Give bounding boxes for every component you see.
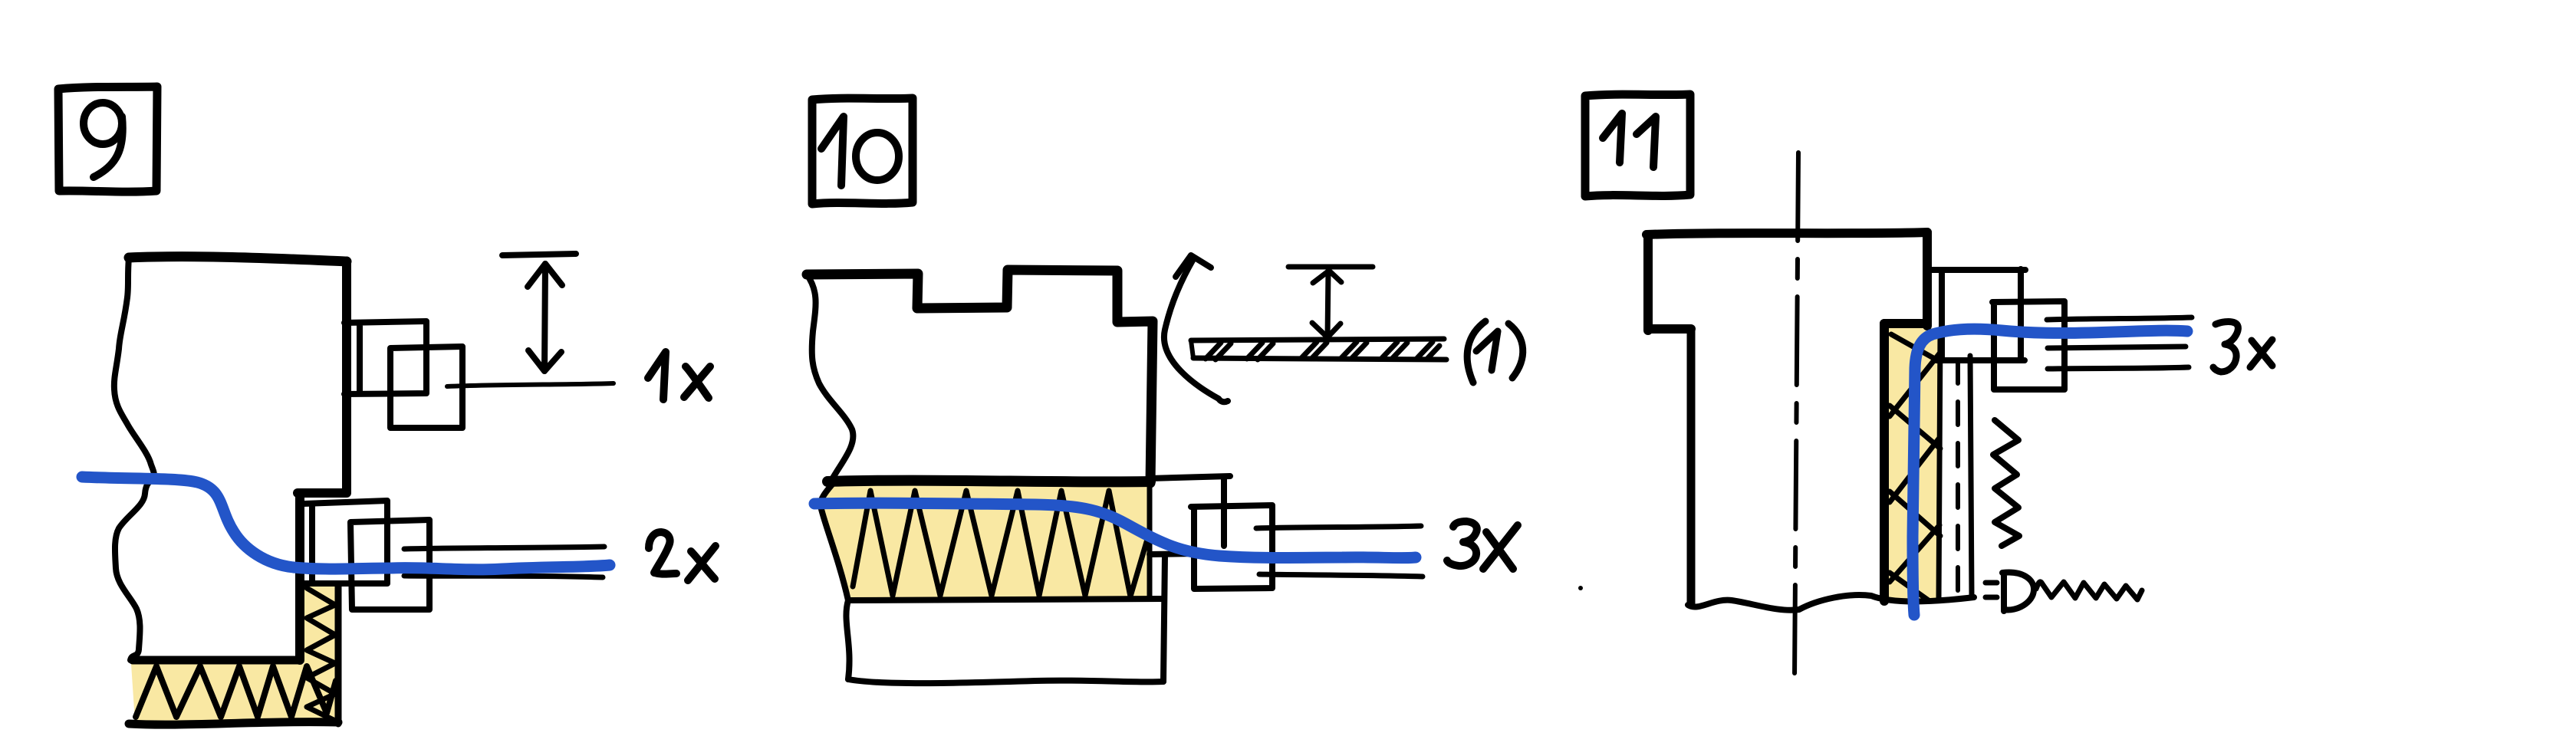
screw shank lines (panel 9) <box>404 547 604 577</box>
insulation hatch vertical strip (panel 9) <box>307 588 335 721</box>
fastener square (panel 10) <box>1191 505 1272 589</box>
label 1x (panel 9) <box>648 352 710 399</box>
plug shell (panel 11) <box>2002 573 2034 611</box>
lower block right edge (panel 10) <box>1163 555 1165 682</box>
dashed membrane line (panel 11) <box>1956 360 1960 596</box>
curved arrowhead (panel 10) <box>1176 255 1211 277</box>
digit 9 <box>84 103 123 177</box>
hatched sealing bar left cap (panel 10) <box>1191 340 1193 358</box>
label box 9 <box>58 87 157 192</box>
plug prongs (panel 11) <box>1985 583 1997 597</box>
wall left wavy break edge (panel 9) <box>114 258 154 660</box>
stray dot (panel 11) <box>1578 586 1583 590</box>
dimension arrowheads (panel 10) <box>1312 271 1341 337</box>
label 2x (panel 9) <box>649 532 716 580</box>
cladding line (panel 11) <box>1970 356 1972 596</box>
insulation bottom thick line (panel 9) <box>129 722 338 725</box>
upper fastener square (panel 9) <box>390 347 462 428</box>
yellow band right border (panel 10) <box>1147 486 1153 596</box>
insulation band bottom line (panel 10) <box>850 599 1163 600</box>
dimension arrowheads (panel 9) <box>528 264 562 371</box>
lower fastener outer box (panel 9) <box>304 501 387 583</box>
insulation right border (panel 11) <box>1939 333 1940 600</box>
spring symbol (panel 11) <box>1993 420 2019 546</box>
blue sealing tape (panel 9) <box>82 477 610 570</box>
label box 10 <box>812 98 913 204</box>
insulation strip fill (panel 11) <box>1888 328 1939 600</box>
dimension top bar (panel 10) <box>1288 265 1373 270</box>
T-profile top edge (panel 11) <box>1647 232 1927 235</box>
label 3x (panel 11) <box>2213 322 2272 372</box>
screw shank lines (panel 10) <box>1256 526 1423 577</box>
insulation right border line (panel 9) <box>335 585 342 724</box>
wall step ledge (panel 9) <box>298 488 347 498</box>
screw shank lines (panel 11) <box>2047 317 2192 369</box>
hatched sealing bar bottom line (panel 10) <box>1193 358 1446 360</box>
digits 10 <box>821 117 899 186</box>
dimension arrow shaft (panel 9) <box>544 264 545 371</box>
wall bottom edge (panel 9) <box>133 656 300 665</box>
fastener outer box (panel 11) <box>1932 269 2025 360</box>
insulation band fill (panel 10) <box>821 483 1150 600</box>
insulation band left wavy edge (panel 10) <box>821 485 848 600</box>
hatched sealing bar hatch marks (panel 10) <box>1206 342 1439 360</box>
plug coil squiggle (panel 11) <box>2036 582 2142 600</box>
label box 11 <box>1585 94 1690 196</box>
T-profile right edge (panel 11) <box>1923 232 1932 326</box>
lower fastener square (panel 9) <box>350 520 429 610</box>
curved arrow (panel 10) <box>1164 259 1228 402</box>
dimension top bar (panel 9) <box>502 254 576 255</box>
blue sealing tape (panel 11) <box>1913 329 2187 615</box>
wall left wavy edge (panel 10) <box>807 274 853 479</box>
bottom wavy break line (panel 11) <box>1688 595 1974 610</box>
fastener square (panel 11) <box>1992 301 2064 389</box>
T-profile right leg edge thick (panel 11) <box>1880 324 1889 601</box>
centre dash-dot line (panel 11) <box>1795 153 1798 679</box>
lower block left wavy edge (panel 10) <box>846 600 849 679</box>
label 3X (panel 10) <box>1447 521 1518 569</box>
T-profile left step (panel 11) <box>1648 324 1691 334</box>
hatched sealing bar top line (panel 10) <box>1191 339 1444 340</box>
wall top edge (panel 9) <box>129 257 347 261</box>
wall lower right edge (panel 9) <box>295 495 304 660</box>
lower block bottom wavy line (panel 10) <box>848 679 1163 683</box>
label (1) (panel 10) <box>1467 321 1523 383</box>
upper fastener outer box (panel 9) <box>344 321 426 394</box>
castellated wall outline (panel 10) <box>807 270 1153 483</box>
insulation fill L-shape (panel 9) <box>131 585 338 721</box>
T-profile left leg edge (panel 11) <box>1687 329 1696 604</box>
T-profile right step (panel 11) <box>1884 319 1927 328</box>
insulation band top thick line (panel 10) <box>827 481 1150 482</box>
fastener outer box (panel 10) <box>1150 476 1230 554</box>
T-profile left edge (panel 11) <box>1643 235 1653 330</box>
insulation hatch bottom strip (panel 9) <box>136 666 336 717</box>
wall right edge (panel 9) <box>342 261 351 491</box>
leader line to 1x (panel 9) <box>447 383 614 386</box>
digits 11 <box>1603 113 1656 167</box>
insulation strip hatch (panel 11) <box>1890 334 1940 601</box>
insulation band hatch (panel 10) <box>853 491 1148 596</box>
dimension arrow shaft (panel 10) <box>1327 271 1328 337</box>
blue sealing tape (panel 10) <box>814 503 1416 558</box>
